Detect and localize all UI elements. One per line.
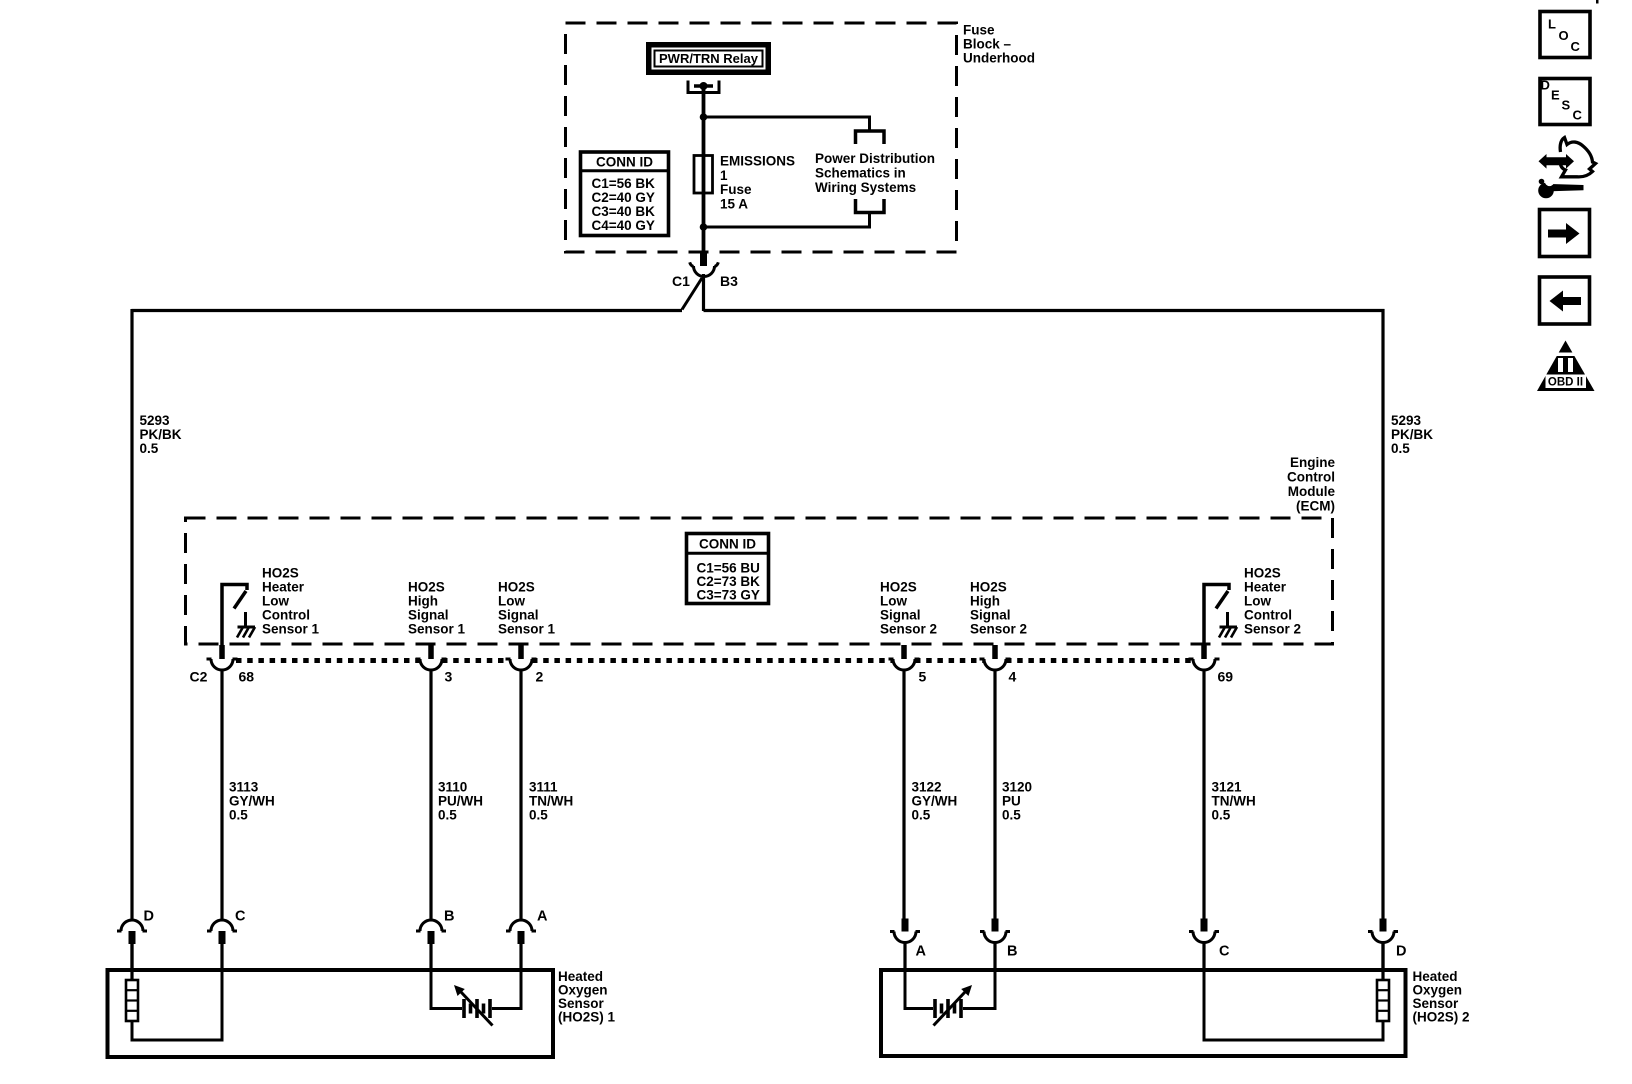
ECM HO2S heater low control driver (sensor 2)	[1204, 585, 1229, 646]
svg-text:A: A	[537, 909, 548, 925]
icon: OBD II warning triangle	[1537, 341, 1595, 392]
svg-text:Heater: Heater	[262, 580, 305, 595]
svg-text:3: 3	[445, 669, 453, 685]
node: junction below fuse	[700, 223, 708, 231]
label: wire 3121 TN/WH 0.5	[1212, 780, 1256, 823]
svg-text:Fuse: Fuse	[963, 22, 995, 37]
svg-text:D: D	[1396, 944, 1406, 960]
ECM pin 69 connector	[1189, 645, 1220, 670]
label: wire 3110 PU/WH 0.5	[438, 780, 483, 823]
svg-text:HO2S: HO2S	[1244, 566, 1281, 581]
svg-text:3111: 3111	[529, 780, 558, 795]
svg-text:0.5: 0.5	[229, 808, 248, 823]
label: Power Distribution Schematics in Wiring Systems	[815, 151, 935, 195]
svg-text:GY/WH: GY/WH	[912, 794, 958, 809]
Fuse Block - Underhood dashed box	[566, 23, 957, 252]
label: Engine Control Module (ECM)	[1287, 455, 1335, 514]
svg-text:CONN ID: CONN ID	[699, 537, 756, 552]
svg-text:C2=40 GY: C2=40 GY	[592, 190, 655, 205]
label: wire 3111 TN/WH 0.5	[529, 780, 573, 823]
off-page connector bracket (top)	[856, 131, 885, 144]
label: Fuse Block - Underhood	[963, 22, 1035, 65]
svg-text:Control: Control	[1244, 608, 1292, 623]
HO2S 2 connector pin C	[1189, 919, 1219, 973]
svg-text:68: 68	[239, 669, 255, 685]
ECM dashed box	[186, 518, 1333, 644]
svg-text:C: C	[235, 909, 246, 925]
svg-text:Module: Module	[1288, 484, 1336, 499]
svg-text:PK/BK: PK/BK	[140, 427, 182, 442]
svg-text:GY/WH: GY/WH	[229, 794, 275, 809]
wire: connector to bus	[702, 274, 705, 311]
label: pin C2	[190, 669, 208, 685]
svg-text:HO2S: HO2S	[408, 580, 445, 595]
label: wire 3120 PU 0.5	[1002, 780, 1032, 823]
svg-text:Fuse: Fuse	[720, 182, 752, 197]
label: pin A (HO2S 1)	[537, 909, 548, 925]
icon: DESC button	[1540, 78, 1590, 125]
label: pin A (HO2S 2)	[916, 944, 927, 960]
svg-text:PU/WH: PU/WH	[438, 794, 483, 809]
svg-text:(HO2S) 1: (HO2S) 1	[558, 1009, 616, 1024]
svg-text:3120: 3120	[1002, 780, 1032, 795]
ECM pin 4 connector	[980, 645, 1011, 670]
wire 3113 GY/WH	[220, 670, 223, 921]
svg-text:CONN ID: CONN ID	[596, 154, 653, 169]
svg-text:2: 2	[536, 669, 544, 685]
icon: LOC button	[1540, 12, 1590, 58]
label: pin 3	[445, 669, 453, 685]
svg-text:Sensor 2: Sensor 2	[880, 622, 937, 637]
svg-text:0.5: 0.5	[529, 808, 548, 823]
label: pin 5	[919, 669, 927, 685]
svg-text:PWR/TRN Relay: PWR/TRN Relay	[659, 51, 759, 66]
wire: relay through fuse to connector	[702, 88, 706, 253]
svg-text:0.5: 0.5	[140, 441, 159, 456]
wire: left bus drop 5293	[130, 309, 133, 920]
svg-text:HO2S: HO2S	[970, 580, 1007, 595]
label C1	[672, 273, 690, 289]
wire 3111 TN/WH	[519, 670, 522, 921]
svg-text:0.5: 0.5	[1212, 808, 1231, 823]
label: pin 4	[1009, 669, 1017, 685]
svg-text:HO2S: HO2S	[262, 566, 299, 581]
svg-text:5: 5	[919, 669, 927, 685]
svg-text:D: D	[144, 909, 154, 925]
Heated Oxygen Sensor (HO2S) 2 box	[881, 970, 1406, 1056]
wire: horizontal supply bus (left segment)	[132, 309, 683, 312]
icon: wrench / adjust tool	[1538, 138, 1595, 199]
label: pin B (HO2S 2)	[1007, 944, 1017, 960]
node: junction above fuse	[700, 113, 708, 121]
HO2S 2 connector pin B	[980, 919, 1010, 973]
svg-text:High: High	[408, 594, 438, 609]
icon: forward arrow button	[1540, 210, 1590, 257]
svg-text:3110: 3110	[438, 780, 467, 795]
wire: junction to power distribution bracket (top)	[704, 117, 870, 131]
svg-text:Engine: Engine	[1290, 455, 1335, 470]
label: HO2S Low Signal Sensor 2	[880, 580, 937, 637]
svg-text:15 A: 15 A	[720, 197, 748, 212]
svg-text:Sensor 1: Sensor 1	[408, 622, 466, 637]
label: pin 2	[536, 669, 544, 685]
CONN ID table (fuse block)	[580, 152, 669, 236]
svg-text:C1=56 BK: C1=56 BK	[592, 176, 656, 191]
CONN ID table (ECM)	[686, 534, 769, 604]
HO2S 1 connector pin B	[416, 920, 446, 972]
wire: right bus drop 5293	[1381, 309, 1384, 919]
label: HO2S Low Signal Sensor 1	[498, 580, 556, 637]
svg-text:Low: Low	[880, 594, 907, 609]
svg-text:(HO2S) 2: (HO2S) 2	[1413, 1009, 1470, 1024]
svg-text:EMISSIONS: EMISSIONS	[720, 153, 795, 168]
relay contact symbol	[688, 81, 719, 93]
ECM pin 5 connector	[889, 645, 920, 670]
label: Heated Oxygen Sensor (HO2S) 2	[1413, 969, 1470, 1025]
svg-text:Control: Control	[262, 608, 310, 623]
label B3	[720, 273, 738, 289]
svg-text:C: C	[1571, 39, 1581, 54]
svg-text:Signal: Signal	[880, 608, 921, 623]
svg-text:Power Distribution: Power Distribution	[815, 151, 935, 166]
wire 3122 GY/WH	[902, 670, 905, 921]
svg-text:Signal: Signal	[498, 608, 539, 623]
HO2S 2 heater element	[1377, 980, 1389, 1021]
ground symbol (sensor 2 driver)	[1219, 612, 1237, 638]
svg-text:69: 69	[1218, 669, 1234, 685]
label: HO2S Heater Low Control Sensor 2	[1244, 566, 1301, 637]
HO2S 1 connector pin C	[207, 920, 237, 972]
label: HO2S High Signal Sensor 2	[970, 580, 1027, 637]
wire 3110 PU/WH	[429, 670, 432, 921]
wire: heater to pin C inside HO2S 1	[132, 942, 222, 1040]
HO2S 1 sensing element (variable cell)	[431, 942, 521, 1026]
svg-text:L: L	[1548, 17, 1556, 32]
svg-text:TN/WH: TN/WH	[1212, 794, 1256, 809]
label: Heated Oxygen Sensor (HO2S) 1	[558, 969, 616, 1025]
svg-text:Signal: Signal	[970, 608, 1011, 623]
wire: pin C to heater inside HO2S 2	[1204, 942, 1383, 1040]
svg-text:Sensor 2: Sensor 2	[970, 622, 1027, 637]
HO2S 1 connector pin D	[117, 920, 147, 972]
wire 3120 PU	[993, 670, 996, 921]
label: wire 5293 PK/BK 0.5 (left)	[140, 413, 182, 456]
label: pin D (HO2S 2)	[1396, 944, 1406, 960]
ECM pin 3 connector	[416, 645, 447, 670]
svg-text:Low: Low	[1244, 594, 1271, 609]
svg-text:High: High	[970, 594, 1000, 609]
svg-text:Low: Low	[498, 594, 525, 609]
svg-text:Sensor 1: Sensor 1	[498, 622, 556, 637]
HO2S 1 heater element	[126, 980, 138, 1021]
svg-text:Control: Control	[1287, 469, 1335, 484]
svg-text:E: E	[1551, 88, 1560, 103]
svg-text:O: O	[1559, 28, 1569, 43]
HO2S 2 connector pin D	[1368, 919, 1398, 973]
ECM pin 68 (C2) connector	[207, 645, 238, 670]
svg-text:Schematics in: Schematics in	[815, 166, 906, 181]
label: HO2S Heater Low Control Sensor 1	[262, 566, 320, 637]
Heated Oxygen Sensor (HO2S) 1 box	[108, 970, 554, 1057]
svg-text:HO2S: HO2S	[880, 580, 917, 595]
svg-text:B3: B3	[720, 273, 738, 289]
svg-text:3113: 3113	[229, 780, 259, 795]
svg-text:PU: PU	[1002, 794, 1021, 809]
wire: heater top stub HO2S 2	[1381, 942, 1384, 980]
svg-text:0.5: 0.5	[1002, 808, 1021, 823]
svg-text:5293: 5293	[140, 413, 171, 428]
label: wire 3122 GY/WH 0.5	[912, 780, 958, 823]
svg-text:Low: Low	[262, 594, 289, 609]
connector C1/B3 socket arc	[690, 262, 719, 276]
connector C1/B3 terminal	[700, 253, 707, 266]
wire: connector diagonal lead	[682, 278, 702, 310]
label: pin 69	[1218, 669, 1234, 685]
fuse F1: EMISSIONS 1 Fuse 15 A	[694, 153, 795, 211]
ground symbol (sensor 1 driver)	[237, 612, 255, 638]
HO2S 2 sensing element (variable cell)	[905, 942, 995, 1026]
svg-text:C3=73 GY: C3=73 GY	[697, 588, 760, 603]
svg-text:S: S	[1562, 98, 1571, 113]
svg-text:0.5: 0.5	[438, 808, 457, 823]
svg-text:Underhood: Underhood	[963, 50, 1035, 65]
svg-text:Sensor 1: Sensor 1	[262, 622, 320, 637]
HO2S 2 connector pin A	[890, 919, 920, 973]
svg-text:Heater: Heater	[1244, 580, 1287, 595]
svg-text:5293: 5293	[1391, 413, 1422, 428]
wire: horizontal supply bus (right segment)	[704, 309, 1385, 312]
label: pin 68	[239, 669, 255, 685]
label: pin B (HO2S 1)	[444, 909, 454, 925]
wire: junction to power distribution bracket (bottom)	[704, 213, 870, 227]
HO2S 1 connector pin A	[506, 920, 536, 972]
svg-text:PK/BK: PK/BK	[1391, 427, 1433, 442]
svg-text:Sensor 2: Sensor 2	[1244, 622, 1301, 637]
svg-text:TN/WH: TN/WH	[529, 794, 573, 809]
svg-text:Block –: Block –	[963, 36, 1012, 51]
svg-text:(ECM): (ECM)	[1296, 498, 1335, 513]
icon: back arrow button	[1540, 277, 1590, 324]
svg-text:Signal: Signal	[408, 608, 449, 623]
off-page connector bracket (bottom)	[856, 199, 885, 213]
svg-text:C: C	[1573, 108, 1583, 123]
svg-text:C1: C1	[672, 273, 690, 289]
label: pin C (HO2S 2)	[1219, 944, 1230, 960]
ECM HO2S heater low control driver (sensor 1)	[222, 585, 247, 646]
svg-text:C: C	[1219, 944, 1230, 960]
ECM connector face dotted line	[236, 658, 1193, 663]
wire: heater top stub HO2S 1	[130, 944, 133, 980]
wire 3121 TN/WH	[1202, 670, 1205, 921]
svg-text:HO2S: HO2S	[498, 580, 535, 595]
svg-text:B: B	[444, 909, 454, 925]
svg-text:D: D	[1541, 78, 1550, 93]
label: pin D (HO2S 1)	[144, 909, 154, 925]
svg-text:B: B	[1007, 944, 1017, 960]
svg-text:3121: 3121	[1212, 780, 1243, 795]
relay K: PWR/TRN Relay box	[646, 42, 771, 75]
svg-text:A: A	[916, 944, 927, 960]
svg-text:C2: C2	[190, 669, 208, 685]
svg-text:0.5: 0.5	[1391, 441, 1410, 456]
svg-text:3122: 3122	[912, 780, 942, 795]
svg-text:4: 4	[1009, 669, 1017, 685]
svg-text:OBD II: OBD II	[1548, 377, 1583, 389]
label: wire 5293 PK/BK 0.5 (right)	[1391, 413, 1433, 456]
label: pin C (HO2S 1)	[235, 909, 246, 925]
label: HO2S High Signal Sensor 1	[408, 580, 466, 637]
label: wire 3113 GY/WH 0.5	[229, 780, 275, 823]
svg-text:0.5: 0.5	[912, 808, 931, 823]
svg-text:C3=40 BK: C3=40 BK	[592, 204, 656, 219]
svg-text:C4=40 GY: C4=40 GY	[592, 218, 655, 233]
svg-text:Wiring Systems: Wiring Systems	[815, 180, 916, 195]
ECM pin 2 connector	[506, 645, 537, 670]
svg-text:1: 1	[720, 168, 728, 183]
page edge tick	[1596, 0, 1599, 4]
